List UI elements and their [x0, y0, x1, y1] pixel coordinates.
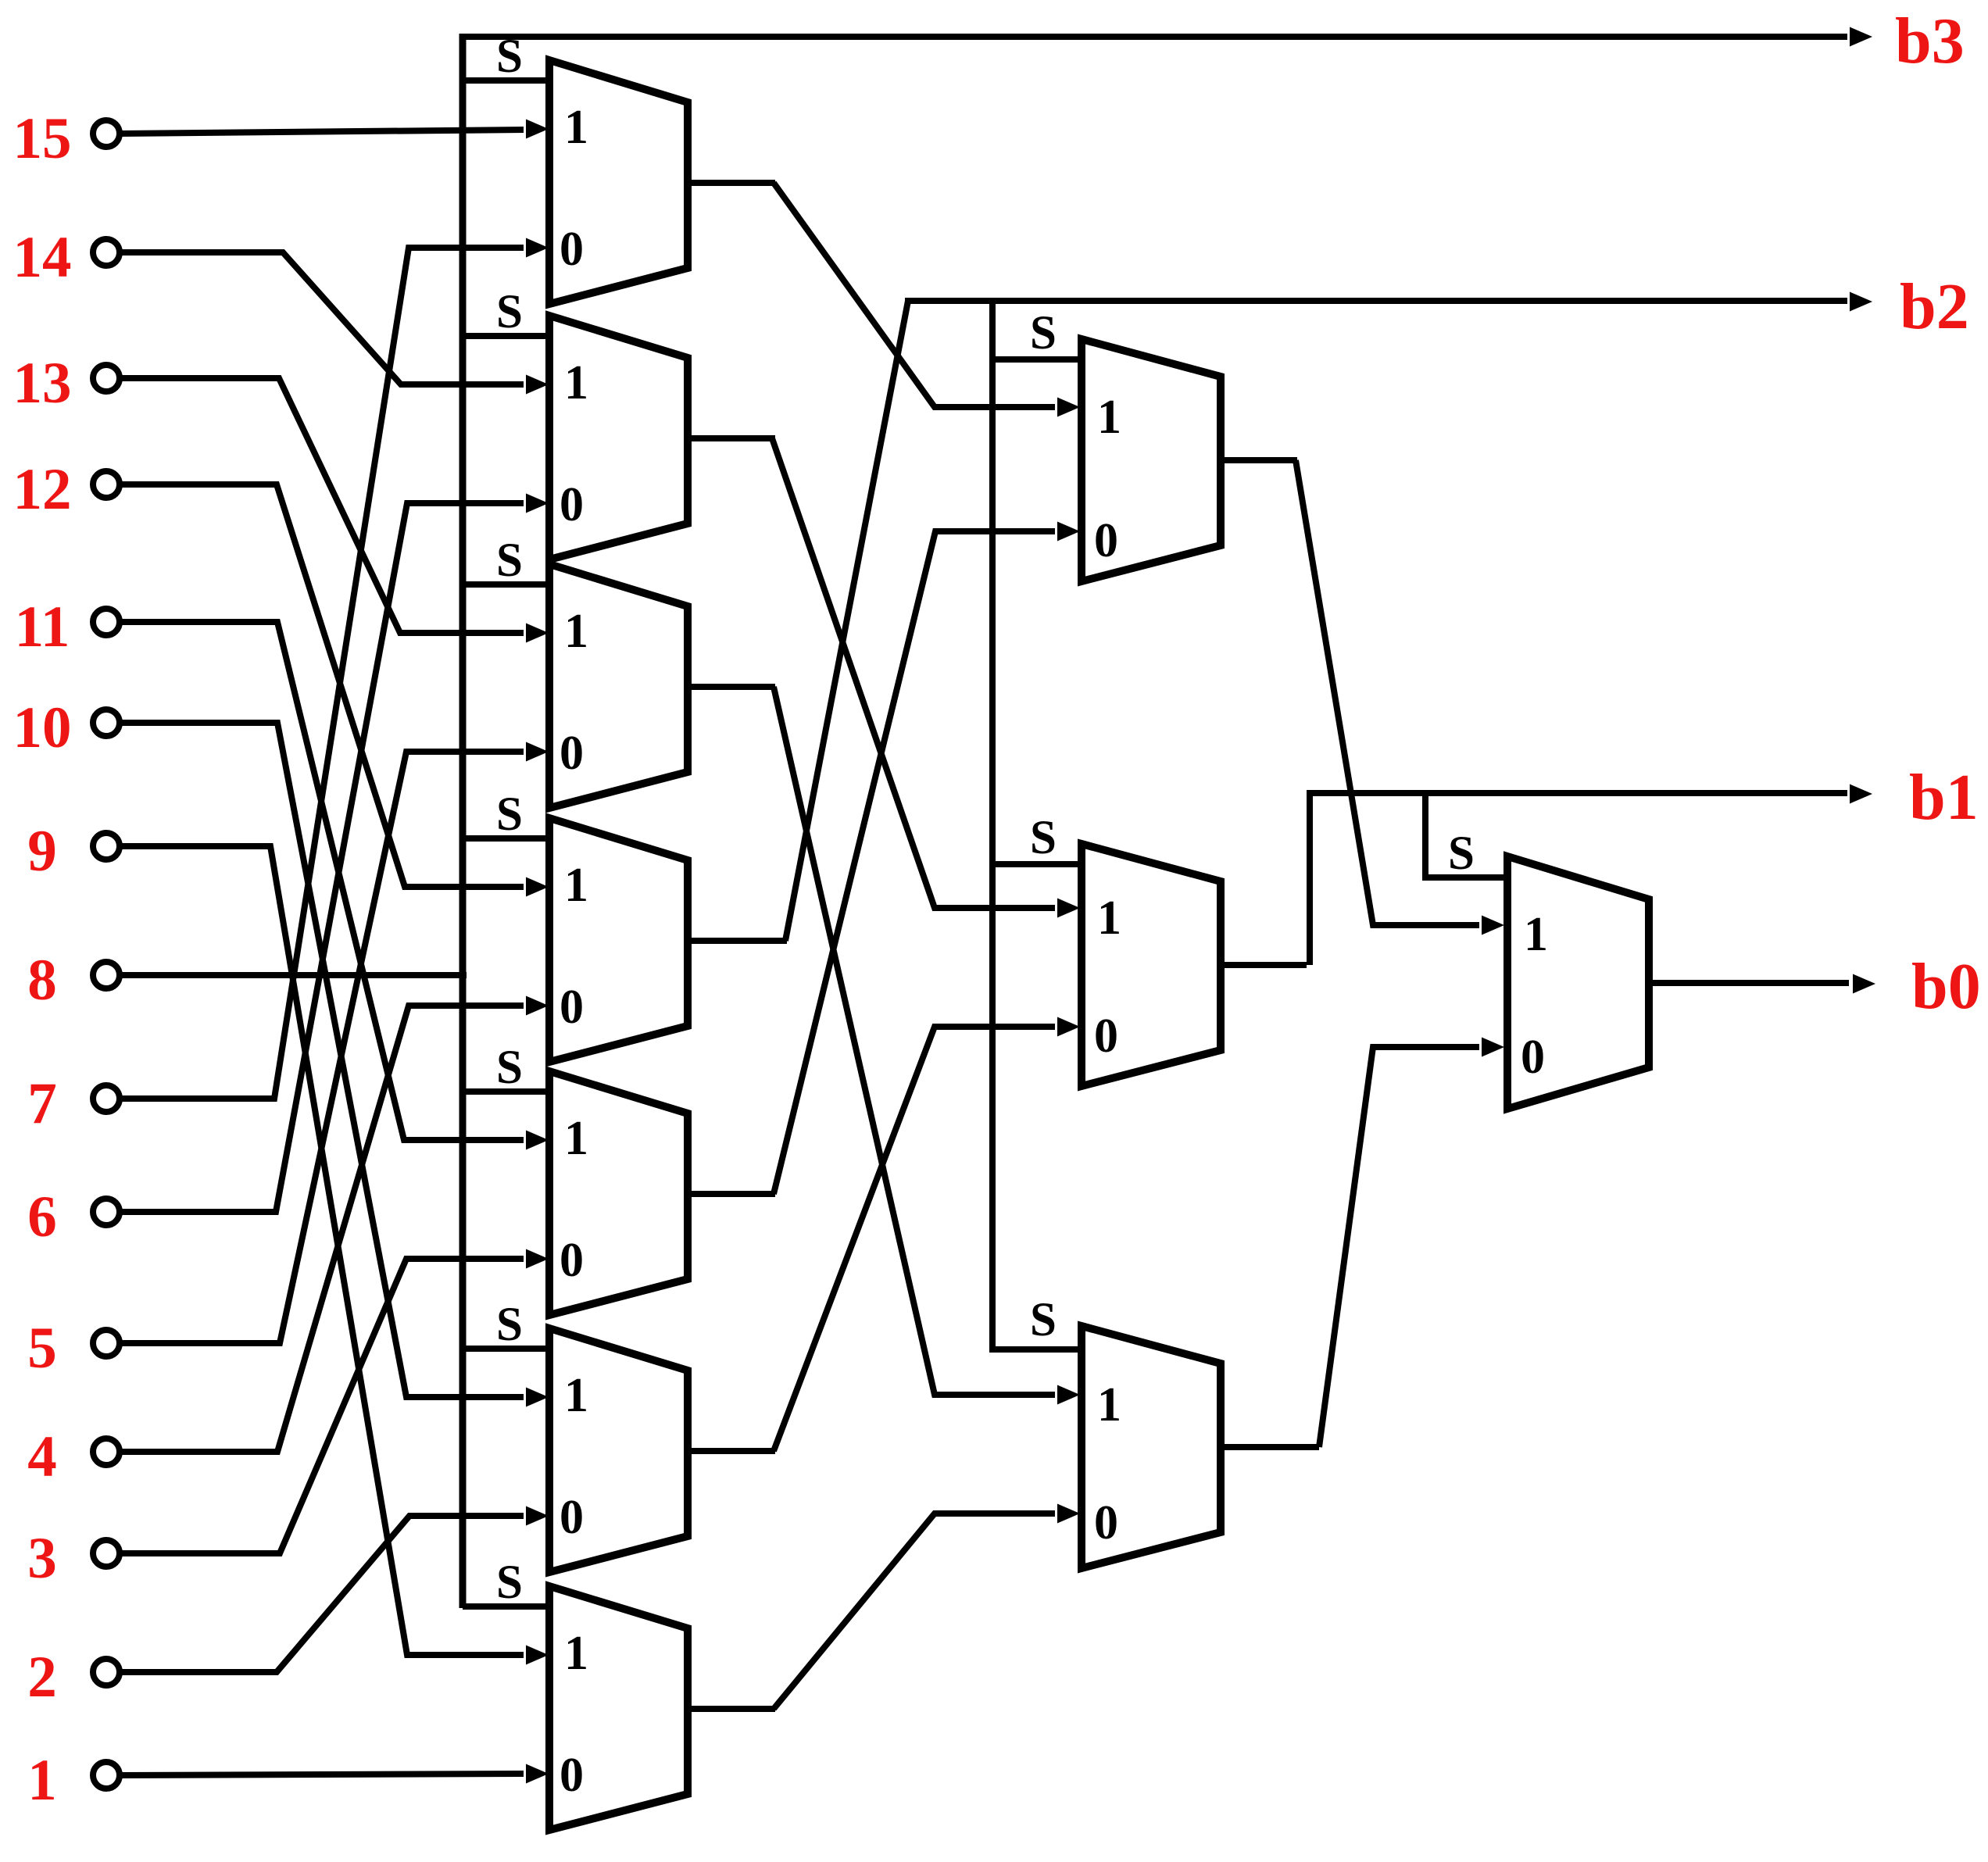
input terminal 6: [93, 1199, 120, 1225]
mux M3: [549, 564, 688, 808]
wire input 10 to mux M6 pin 1: [120, 723, 524, 1397]
input terminal 11: [93, 609, 120, 635]
svg-text:b2: b2: [1900, 270, 1969, 343]
wire input 14 to mux M2 pin 1: [120, 252, 524, 384]
svg-text:1: 1: [564, 1369, 588, 1422]
svg-text:14: 14: [13, 225, 72, 290]
wire input 6 to mux M2 pin 0: [120, 503, 524, 1212]
mux N1: [1082, 339, 1221, 581]
mux N1 select stub: [992, 356, 1078, 363]
mux M6: [549, 1328, 688, 1572]
input terminal 13: [93, 365, 120, 391]
mux M3 output stub: [688, 684, 775, 690]
select bus S1 vertical (drives all first-level mux selects): [459, 34, 467, 1608]
input terminal 9: [93, 833, 120, 860]
input terminal 14: [93, 239, 120, 266]
svg-text:S: S: [1030, 307, 1057, 359]
svg-text:1: 1: [1097, 1378, 1121, 1431]
svg-text:S: S: [496, 1042, 523, 1094]
mux M2 output stub: [688, 435, 775, 441]
svg-text:9: 9: [27, 819, 57, 884]
input terminal 5: [93, 1330, 120, 1356]
output net b1 wire: [1307, 790, 1847, 796]
svg-text:S: S: [496, 1556, 523, 1609]
wire input 5 to mux M3 pin 0: [120, 752, 524, 1343]
svg-text:0: 0: [560, 223, 584, 276]
svg-text:b0: b0: [1911, 950, 1981, 1023]
input terminal 3: [93, 1540, 120, 1567]
output net b2 wire: [905, 298, 1847, 304]
svg-text:1: 1: [564, 605, 588, 658]
svg-text:0: 0: [560, 1234, 584, 1287]
mux M2: [549, 316, 688, 559]
output net b0 arrowhead: [1853, 974, 1875, 994]
svg-text:8: 8: [27, 948, 57, 1013]
svg-text:1: 1: [564, 1627, 588, 1680]
output net b3 wire: [459, 34, 1847, 40]
svg-text:6: 6: [27, 1185, 57, 1249]
mux M4 select stub: [463, 835, 547, 842]
select bus S2 vertical (tap of b2): [992, 301, 1082, 1349]
wire input 2 to mux M6 pin 0: [120, 1516, 524, 1672]
wire mux M7 output to mux N3 pin 0: [774, 1514, 1055, 1709]
mux M4: [549, 818, 688, 1062]
svg-text:S: S: [496, 534, 523, 587]
wire mux M2 output to mux N2 pin 1: [772, 438, 1055, 908]
svg-text:2: 2: [27, 1645, 57, 1710]
svg-text:0: 0: [560, 1749, 584, 1802]
wire input 4 to mux M4 pin 0: [120, 1006, 524, 1452]
mux N3 output stub: [1221, 1444, 1319, 1450]
svg-text:13: 13: [13, 351, 72, 416]
mux M2 select stub: [463, 333, 547, 339]
mux M5 output stub: [688, 1191, 775, 1197]
mux M4 output stub: [688, 938, 787, 944]
svg-text:0: 0: [1094, 1010, 1118, 1063]
select bus S3 vertical (tap of b1): [1425, 793, 1504, 877]
wire input 7 to mux M1 pin 0: [120, 248, 524, 1099]
svg-text:0: 0: [560, 981, 584, 1034]
mux M6 select stub: [463, 1346, 547, 1352]
mux P: [1507, 856, 1649, 1109]
wire mux M5 output to mux N1 pin 0: [774, 531, 1055, 1194]
svg-text:1: 1: [1524, 908, 1548, 961]
svg-text:0: 0: [560, 727, 584, 780]
mux N2 output stub: [1221, 962, 1307, 968]
wire mux N2 output riser to b1: [1307, 793, 1313, 965]
svg-text:1: 1: [564, 101, 588, 154]
svg-text:0: 0: [1094, 1496, 1118, 1549]
mux M1: [549, 60, 688, 304]
svg-text:b3: b3: [1895, 5, 1965, 77]
wire mux M4 output riser to b2: [785, 301, 908, 941]
wire input 1 to mux M7 pin 0: [120, 1774, 524, 1775]
wire mux M1 output to mux N1 pin 1: [774, 183, 1055, 407]
output net b1 arrowhead: [1850, 784, 1872, 804]
svg-text:3: 3: [27, 1526, 57, 1591]
input terminal 15: [93, 120, 120, 147]
svg-text:0: 0: [560, 478, 584, 531]
wire input 9 to mux M7 pin 1: [120, 846, 524, 1655]
wire input 13 to mux M3 pin 1: [120, 378, 524, 633]
wire mux N3 output to mux P pin 0: [1319, 1047, 1479, 1447]
input terminal 12: [93, 471, 120, 498]
mux M1 output stub: [688, 180, 775, 186]
svg-text:5: 5: [27, 1316, 57, 1381]
svg-text:b1: b1: [1909, 761, 1979, 834]
mux M6 output stub: [688, 1448, 775, 1454]
wire input 3 to mux M5 pin 0: [120, 1259, 524, 1553]
input terminal 2: [93, 1659, 120, 1685]
svg-text:S: S: [496, 788, 523, 841]
svg-text:15: 15: [13, 106, 72, 171]
svg-text:10: 10: [13, 695, 72, 760]
input terminal 4: [93, 1438, 120, 1465]
svg-text:0: 0: [1521, 1031, 1545, 1084]
svg-text:0: 0: [1094, 514, 1118, 567]
svg-text:11: 11: [15, 595, 70, 659]
svg-text:1: 1: [27, 1748, 57, 1813]
mux M3 select stub: [463, 581, 547, 588]
mux M7: [549, 1586, 688, 1830]
output net b0 wire (mux P output): [1649, 980, 1849, 986]
wire input 15 to mux M1 pin 1: [120, 130, 524, 134]
svg-text:S: S: [496, 1299, 523, 1351]
svg-text:1: 1: [564, 1112, 588, 1165]
svg-text:0: 0: [560, 1491, 584, 1544]
wire input 11 to mux M5 pin 1: [120, 622, 524, 1140]
svg-text:S: S: [1448, 827, 1475, 880]
svg-text:4: 4: [27, 1424, 57, 1489]
svg-text:S: S: [1030, 1294, 1057, 1346]
output net b2 arrowhead: [1850, 292, 1872, 312]
svg-text:S: S: [1030, 812, 1057, 864]
wire mux M3 output to mux N3 pin 1: [774, 687, 1055, 1395]
input terminal 10: [93, 709, 120, 736]
output net b3 arrowhead: [1850, 27, 1872, 47]
svg-text:1: 1: [564, 356, 588, 409]
svg-text:1: 1: [564, 859, 588, 912]
mux M5: [549, 1071, 688, 1315]
mux N2 select stub: [992, 861, 1078, 867]
wire input 8 to select bus S1: [120, 972, 467, 978]
mux M1 select stub: [463, 77, 547, 84]
mux N1 output stub: [1221, 457, 1297, 463]
mux N2: [1082, 844, 1221, 1086]
svg-text:7: 7: [27, 1071, 57, 1136]
svg-text:S: S: [496, 286, 523, 338]
input terminal 7: [93, 1085, 120, 1112]
svg-text:1: 1: [1097, 391, 1121, 444]
input terminal 8: [93, 962, 120, 988]
svg-text:S: S: [496, 30, 523, 83]
mux N3: [1082, 1326, 1221, 1568]
input terminal 1: [93, 1762, 120, 1789]
mux M7 select stub: [463, 1603, 547, 1610]
wire mux M6 output to mux N2 pin 0: [774, 1027, 1055, 1451]
mux M5 select stub: [463, 1088, 547, 1095]
svg-text:1: 1: [1097, 892, 1121, 945]
svg-text:12: 12: [13, 457, 72, 522]
wire mux N1 output to mux P pin 1: [1296, 460, 1479, 925]
wire input 12 to mux M4 pin 1: [120, 484, 524, 887]
mux M7 output stub: [688, 1706, 775, 1712]
